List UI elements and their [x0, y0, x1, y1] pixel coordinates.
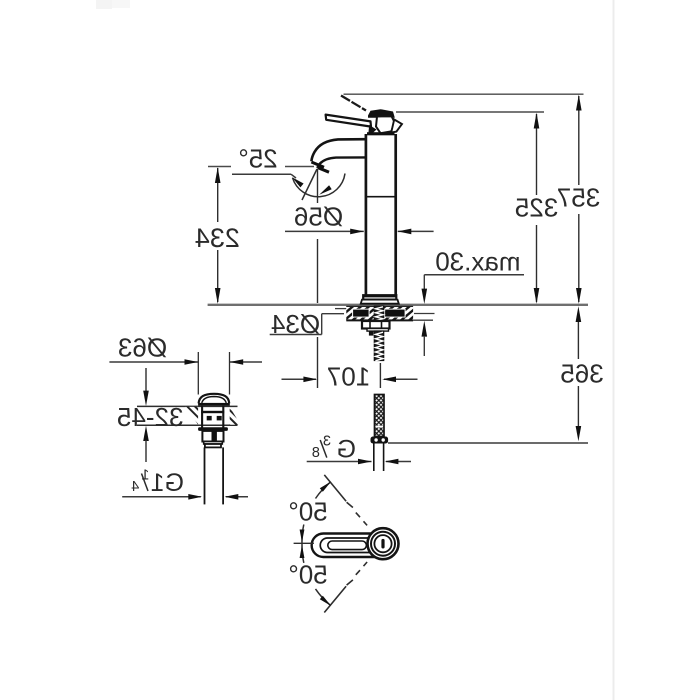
threaded shank lower	[374, 331, 383, 361]
drain deck lines + hatch	[137, 405, 238, 407]
nut step	[367, 329, 389, 332]
dimension 365 line	[577, 322, 579, 427]
svg-text:50°: 50°	[288, 559, 327, 589]
wire: handle centerline tick	[294, 542, 314, 544]
mounting plate hatched	[346, 306, 413, 320]
svg-text:G: G	[337, 436, 356, 464]
dimension 357 line	[578, 96, 580, 302]
cartridge head	[368, 109, 395, 118]
svg-text:Ø63: Ø63	[118, 332, 167, 362]
svg-text:Ø56: Ø56	[294, 202, 343, 232]
braided hose	[375, 395, 385, 437]
base skirt	[361, 300, 399, 304]
dimension 234	[285, 166, 314, 168]
threaded shank upper	[374, 306, 383, 321]
faint vertical artifact line	[613, 0, 615, 700]
handle pivot circles	[368, 528, 399, 559]
svg-text:107: 107	[327, 361, 370, 391]
connection pipe	[374, 444, 384, 472]
aerator	[311, 162, 324, 167]
wire: 365 bottom reference line	[388, 442, 588, 444]
wire: spout centerline	[317, 169, 319, 388]
wire: drain cap extension lines	[198, 352, 229, 395]
svg-text:8: 8	[312, 445, 320, 461]
locknut lower steps	[204, 442, 223, 445]
countertop line	[208, 304, 588, 306]
svg-text:25°: 25°	[238, 144, 277, 174]
drain locknut body	[202, 431, 223, 442]
wire: 325 extension line (handle rest level)	[396, 111, 544, 113]
lower 50deg arc	[302, 544, 330, 606]
hose nut	[371, 437, 389, 444]
svg-text:50°: 50°	[288, 496, 327, 526]
svg-text:234: 234	[195, 223, 240, 253]
hex nut under plate	[362, 321, 390, 329]
cartridge base band	[367, 132, 395, 135]
lever raised dashes	[341, 96, 366, 111]
25deg angle arc	[293, 174, 346, 197]
svg-text:G1: G1	[151, 469, 184, 497]
dimension 325 line	[536, 114, 538, 302]
svg-text:325: 325	[515, 193, 558, 223]
drain cap dome	[199, 394, 230, 404]
25deg slant ray	[302, 169, 317, 200]
svg-text:max.30: max.30	[435, 247, 520, 277]
drain body between deck lines	[202, 406, 223, 428]
lever handle	[326, 115, 371, 127]
upper 50deg ray	[324, 475, 346, 501]
base flare	[363, 295, 396, 299]
body joint line	[367, 196, 395, 198]
small black block	[369, 331, 374, 336]
spout	[311, 139, 366, 161]
wire: top extension line (357 ref, lever tip level)	[344, 93, 584, 95]
lower 50deg ray	[324, 586, 346, 612]
mirrored whole-drawing group	[96, 0, 614, 700]
wire: faucet shank centerline	[379, 363, 381, 388]
washer right	[352, 309, 370, 318]
svg-text:365: 365	[560, 359, 603, 389]
svg-text:357: 357	[557, 183, 600, 213]
svg-text:32-45: 32-45	[117, 402, 184, 432]
handle bar	[312, 534, 383, 558]
svg-text:4: 4	[131, 479, 139, 495]
dimension 32-45 arrows	[145, 368, 147, 391]
faint ghost marks top	[96, 0, 130, 8]
hose collar band	[375, 426, 383, 428]
drain tailpipe	[205, 447, 224, 504]
washer left	[384, 309, 406, 318]
upper 50deg arc	[302, 482, 330, 544]
faucet body	[366, 134, 396, 296]
wire: plate line stubs left of plate (mirrored right)	[414, 313, 435, 315]
svg-text:3: 3	[323, 433, 331, 449]
drain locknut washer	[198, 427, 228, 431]
